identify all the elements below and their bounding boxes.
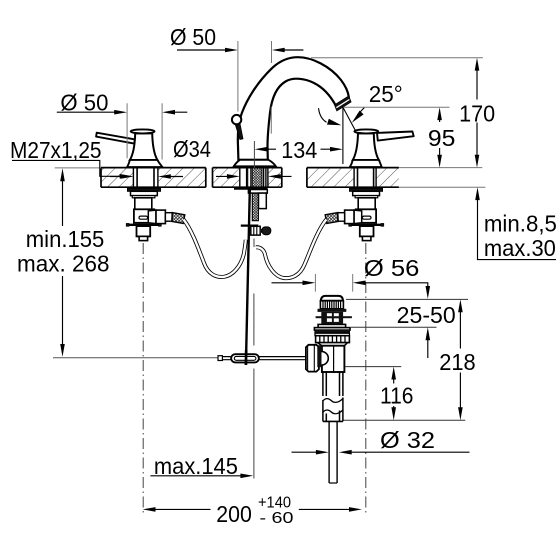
drain top reference line [346, 298, 468, 300]
drain pop-up assembly [306, 296, 352, 483]
right flexible hose [256, 220, 326, 279]
spout locknut block [248, 190, 267, 194]
aerator [335, 96, 351, 111]
svg-text:M27x1,25: M27x1,25 [10, 137, 102, 163]
svg-text:max. 268: max. 268 [17, 251, 110, 277]
left valve below deck [126, 188, 172, 240]
right valve flange plate [349, 224, 384, 226]
svg-text:200: 200 [216, 501, 252, 527]
left handle skirt [127, 160, 162, 167]
centerline right handle [365, 243, 367, 514]
spout top reference line [311, 57, 483, 59]
svg-text:134: 134 [281, 137, 317, 163]
dimension 200 +140/-60 [143, 495, 362, 527]
rod nut on tee [306, 345, 319, 372]
svg-text:95: 95 [428, 125, 456, 151]
left valve outlet cone [148, 210, 156, 224]
rod guide bar [241, 225, 258, 227]
svg-text:Ø 32: Ø 32 [380, 427, 435, 453]
tee side reference line [345, 366, 401, 368]
deck top extension line right [399, 167, 482, 169]
spout tube outline [238, 57, 349, 160]
left valve lower block [137, 226, 151, 236]
right valve below deck [338, 188, 384, 240]
right valve lower block [360, 226, 374, 236]
25-50 lower reference line [351, 326, 437, 328]
svg-text:25°: 25° [369, 81, 403, 107]
shoulder [318, 343, 348, 346]
min 8,5 max 30 deck thickness [475, 187, 557, 261]
left valve flange plate [126, 224, 161, 226]
dimension min.155 max.268 [17, 168, 110, 357]
deck right piece [307, 167, 399, 189]
dimension Ø34 (hole) [110, 136, 292, 179]
horizontal pop-up rod [218, 356, 306, 361]
drain tube [323, 372, 343, 396]
dimension Ø56 [272, 255, 431, 299]
right handle body [353, 133, 379, 160]
dimension 116 [380, 367, 414, 421]
spout shank in deck hole [247, 168, 266, 189]
spout below-deck washer [234, 188, 268, 190]
clamp bolt head [260, 229, 262, 233]
svg-text:Ø 50: Ø 50 [60, 89, 108, 115]
left valve outlet hex [156, 210, 165, 224]
right lever [377, 132, 414, 141]
pull rod [246, 190, 250, 365]
rod linkage [231, 354, 259, 362]
svg-text:Ø34: Ø34 [173, 136, 211, 162]
pipe break [323, 399, 343, 403]
right valve washer [350, 188, 383, 191]
svg-text:Ø 50: Ø 50 [170, 24, 216, 50]
svg-text:- 60: - 60 [260, 510, 294, 527]
left handle [96, 129, 162, 167]
svg-text:max.145: max.145 [154, 453, 238, 479]
tailpipe [329, 421, 337, 483]
right handle shank through deck [358, 168, 374, 188]
svg-text:Ø 56: Ø 56 [364, 255, 420, 281]
dimension Ø50 left (handle) [57, 89, 188, 159]
deck center piece [213, 167, 282, 189]
spout body [232, 57, 351, 166]
spout threaded tube below deck [252, 193, 258, 221]
centerline left handle [142, 243, 144, 514]
right handle cap [354, 129, 378, 133]
pull rod crossing linkage [245, 350, 248, 365]
svg-text:218: 218 [439, 349, 476, 375]
ribbed crown [320, 301, 343, 309]
svg-text:min.155: min.155 [26, 226, 105, 252]
right valve locknut [353, 191, 380, 195]
plug flange band [318, 309, 347, 312]
centerline spout [253, 141, 256, 479]
left valve shank [135, 198, 152, 210]
right handle skirt [350, 160, 382, 167]
knurled locknut [316, 336, 350, 343]
svg-text:116: 116 [380, 383, 414, 409]
drain bottom reference line [344, 419, 466, 421]
25 degree angle annotation [319, 81, 403, 132]
left handle body [130, 133, 158, 160]
band under gasket [315, 333, 349, 336]
svg-text:25-50: 25-50 [397, 302, 456, 328]
dimension 134 [255, 107, 343, 164]
left lever [96, 133, 135, 144]
left valve washer [128, 188, 161, 191]
right valve shank [358, 198, 375, 210]
ball socket [317, 345, 321, 367]
left handle cap [131, 129, 155, 133]
rod clamp [251, 226, 260, 235]
svg-text:min.8,5: min.8,5 [484, 211, 557, 237]
left valve locknut [131, 191, 158, 195]
lift pin [316, 316, 352, 318]
right braided hose connector [325, 213, 338, 224]
right valve body [356, 209, 376, 223]
dimension 218 [439, 299, 476, 420]
dimension 95 [428, 107, 456, 167]
dimension Ø50 top (spout) [170, 24, 303, 134]
right valve outlet hex [345, 210, 354, 224]
tee body [322, 346, 345, 372]
dimension max.145 [150, 453, 253, 479]
deck left piece [101, 167, 206, 189]
flange wide rim [314, 328, 350, 331]
deck bottom extension line right [399, 186, 486, 188]
plug cap [321, 296, 343, 301]
svg-text:max.30: max.30 [484, 235, 556, 261]
spout hose nipple tube [259, 193, 267, 209]
label M27x1,25 with leader [10, 137, 133, 179]
dimension 170 [459, 58, 495, 168]
outlet height reference line [343, 106, 449, 108]
pull rod knob [235, 123, 243, 140]
spout base skirt [234, 160, 276, 167]
right handle [350, 129, 414, 167]
left flexible hose [184, 220, 246, 277]
dimension Ø32 [292, 427, 470, 455]
svg-text:170: 170 [459, 100, 495, 126]
left braided hose connector [172, 213, 185, 224]
left valve body [134, 209, 154, 223]
gasket [314, 330, 350, 333]
plug stem block [321, 312, 343, 324]
pop-up rod reference line [53, 357, 218, 359]
right valve outlet cone [354, 210, 362, 224]
flange upper rim [318, 324, 346, 327]
dimension 25-50 [397, 302, 456, 358]
left handle shank through deck [137, 168, 154, 188]
deck top extension line left [55, 167, 101, 169]
